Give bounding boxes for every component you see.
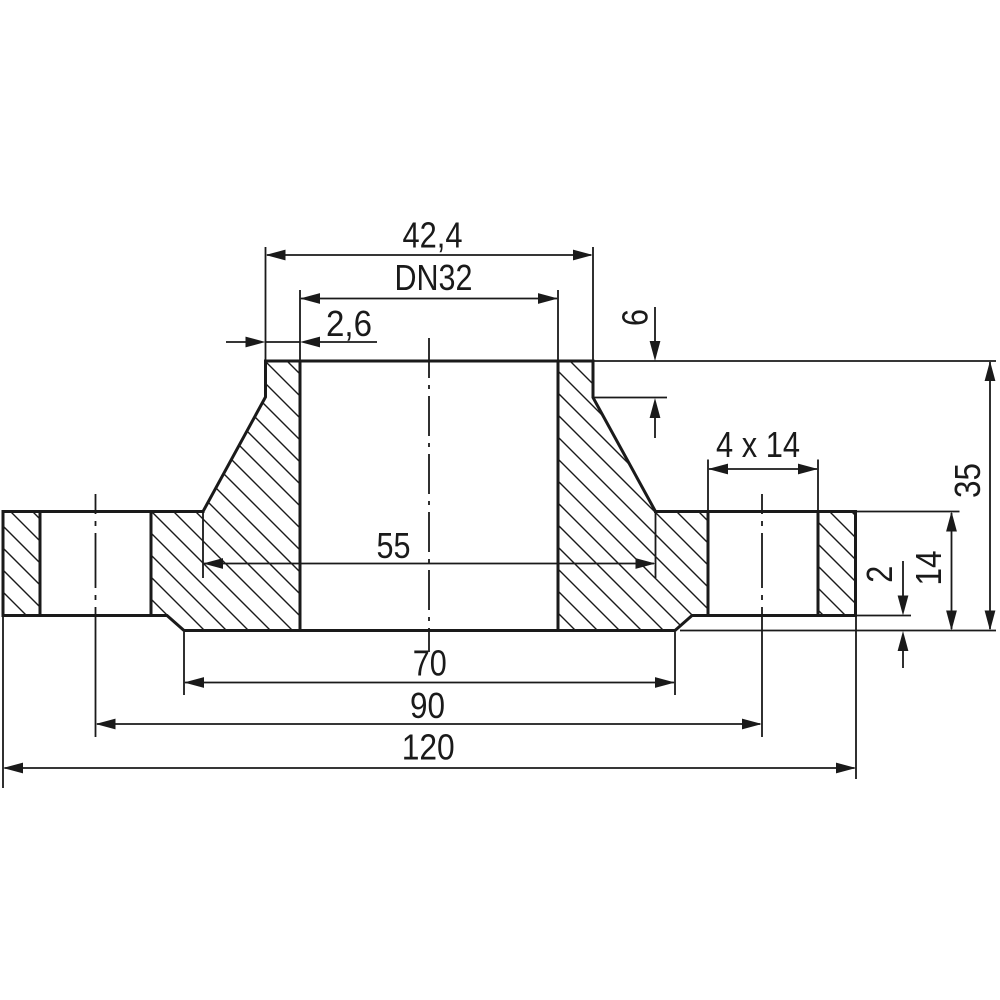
dimension 42,4 — [266, 215, 594, 362]
dimension 90 — [96, 685, 763, 729]
svg-text:55: 55 — [377, 525, 411, 566]
outline flange right edge — [854, 512, 857, 616]
outline flange top face right — [656, 510, 856, 513]
dimension 55 — [203, 512, 656, 579]
dimension 70 — [184, 632, 675, 695]
dimension DN32 — [300, 257, 558, 361]
hatch area left outer rim — [0, 508, 140, 620]
outline left bolt hole walls — [40, 512, 151, 616]
hatch area left hub and flange block — [0, 357, 561, 635]
svg-text:2,6: 2,6 — [326, 303, 372, 344]
centerline right bolt hole — [761, 494, 763, 614]
svg-text:42,4: 42,4 — [403, 215, 463, 256]
svg-text:120: 120 — [402, 727, 455, 768]
svg-text:90: 90 — [410, 685, 445, 726]
hatch area right hub and flange block — [302, 357, 976, 635]
svg-text:70: 70 — [413, 643, 447, 684]
outline neck left outer edge and taper — [203, 361, 266, 512]
dimension 4 x 14 — [708, 424, 818, 512]
outline neck right outer edge and taper — [593, 361, 656, 512]
dimension 2,6 — [226, 303, 377, 347]
extension line right bolt centre below flange — [761, 614, 763, 737]
dimension 14 — [856, 512, 960, 631]
svg-text:35: 35 — [947, 463, 988, 498]
dimension 120 — [3, 616, 856, 789]
extension line left bolt centre below flange — [95, 614, 97, 737]
svg-text:14: 14 — [908, 551, 949, 586]
outline right bolt hole walls — [708, 512, 818, 616]
centerline left bolt hole — [95, 494, 97, 614]
svg-text:4 x 14: 4 x 14 — [716, 424, 800, 465]
centerline main axis — [428, 338, 430, 652]
outline bore left wall — [299, 361, 302, 631]
outline flange top face left — [3, 510, 203, 513]
hatch area right outer rim — [716, 508, 960, 620]
outline bore right wall — [557, 361, 560, 631]
svg-text:DN32: DN32 — [395, 257, 473, 298]
dimension 6 — [593, 307, 667, 438]
outline flange left edge — [2, 512, 5, 616]
svg-text:6: 6 — [615, 309, 656, 326]
dimension 35 — [593, 361, 996, 631]
svg-text:2: 2 — [859, 566, 900, 583]
outline neck top face — [266, 360, 594, 363]
outline flange bottom with raised face — [3, 616, 856, 631]
dimension 2 — [856, 561, 912, 668]
